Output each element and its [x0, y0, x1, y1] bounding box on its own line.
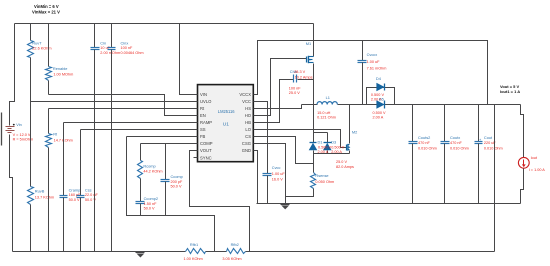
svg-text:Renable: Renable — [53, 66, 68, 71]
svg-text:D5: D5 — [379, 97, 384, 102]
svg-text:Vin: Vin — [16, 122, 22, 127]
svg-text:Rfb2: Rfb2 — [231, 242, 239, 247]
svg-text:Css: Css — [85, 187, 92, 192]
svg-text:M2: M2 — [352, 129, 357, 134]
svg-text:Ccomp: Ccomp — [171, 174, 183, 179]
svg-text:44.2 KOhm: 44.2 KOhm — [143, 169, 162, 173]
svg-text:LO: LO — [245, 127, 251, 132]
svg-text:UVLO: UVLO — [200, 99, 212, 104]
svg-text:0.121 Ohm: 0.121 Ohm — [317, 116, 336, 120]
svg-text:Cin: Cin — [100, 40, 106, 45]
svg-text:Couts2: Couts2 — [418, 135, 430, 140]
svg-text:D3: D3 — [331, 139, 336, 144]
svg-text:50.0 V: 50.0 V — [144, 207, 155, 211]
svg-text:Rfb1: Rfb1 — [190, 242, 198, 247]
svg-text:Rsense: Rsense — [315, 173, 328, 178]
svg-text:VIN: VIN — [200, 92, 207, 97]
svg-text:RuvT: RuvT — [32, 41, 42, 46]
svg-text:0.010 Ohm: 0.010 Ohm — [418, 147, 437, 151]
svg-text:0.500 V: 0.500 V — [318, 145, 332, 149]
svg-text:50.0 V: 50.0 V — [171, 185, 182, 189]
svg-text:M1: M1 — [306, 41, 311, 46]
svg-text:50.0 V: 50.0 V — [69, 198, 80, 202]
svg-text:1.50 nF: 1.50 nF — [144, 202, 158, 206]
svg-text:2.00 A: 2.00 A — [373, 116, 384, 120]
svg-text:HB: HB — [245, 120, 251, 125]
svg-text:470 nF: 470 nF — [450, 141, 463, 145]
svg-text:SYNC: SYNC — [200, 155, 212, 160]
svg-text:Iout1 = 1 A: Iout1 = 1 A — [500, 89, 520, 94]
svg-text:13.7 KOhm: 13.7 KOhm — [35, 195, 54, 199]
svg-text:0.050 Ohm: 0.050 Ohm — [315, 180, 334, 184]
svg-text:Cvccx: Cvccx — [367, 52, 378, 57]
svg-text:1.00 uF: 1.00 uF — [367, 60, 381, 64]
svg-text:22.0 nF: 22.0 nF — [85, 193, 99, 197]
svg-text:28.3 V: 28.3 V — [294, 70, 305, 74]
svg-text:16.0 V: 16.0 V — [272, 177, 283, 181]
svg-text:HO: HO — [245, 113, 252, 118]
svg-text:10.2 Amps: 10.2 Amps — [295, 76, 313, 80]
svg-text:Iout: Iout — [531, 156, 538, 160]
svg-text:CS: CS — [245, 134, 251, 139]
svg-text:1.00 KOhm: 1.00 KOhm — [184, 257, 203, 261]
svg-text:1.00 MOhm: 1.00 MOhm — [53, 72, 73, 76]
svg-text:Cinx: Cinx — [121, 40, 129, 45]
svg-text:200 pF: 200 pF — [171, 180, 184, 184]
svg-text:7.61 mOhm: 7.61 mOhm — [367, 66, 387, 70]
svg-text:COMP: COMP — [200, 141, 213, 146]
svg-text:SS: SS — [200, 127, 206, 132]
svg-text:0.500 V: 0.500 V — [373, 111, 387, 115]
svg-text:RAMP: RAMP — [200, 120, 212, 125]
svg-text:VOUT: VOUT — [200, 148, 212, 153]
svg-text:U1: U1 — [223, 122, 229, 128]
svg-text:CSG: CSG — [242, 141, 251, 146]
svg-text:LM25116: LM25116 — [218, 109, 235, 114]
svg-text:0.010 Ohm: 0.010 Ohm — [484, 147, 503, 151]
svg-text:25.0 V: 25.0 V — [289, 91, 300, 95]
svg-text:0.500 V: 0.500 V — [331, 145, 345, 149]
svg-text:100 nF: 100 nF — [121, 46, 134, 50]
svg-text:GND: GND — [242, 148, 251, 153]
svg-text:100 nF: 100 nF — [289, 87, 302, 91]
svg-text:VCC: VCC — [242, 99, 251, 104]
svg-text:1.00 uF: 1.00 uF — [272, 172, 286, 176]
svg-text:HS: HS — [245, 106, 251, 111]
svg-text:0.00464 Ohm: 0.00464 Ohm — [121, 51, 144, 55]
svg-text:D1: D1 — [318, 139, 323, 144]
svg-text:EN: EN — [200, 113, 206, 118]
svg-text:VinMax = 21 V: VinMax = 21 V — [32, 10, 60, 15]
svg-text:Cout: Cout — [484, 135, 493, 140]
svg-text:Cramp: Cramp — [69, 187, 81, 192]
svg-text:FB: FB — [200, 134, 206, 139]
svg-text:Cvcc: Cvcc — [272, 165, 281, 170]
svg-text:0.010 Ohm: 0.010 Ohm — [450, 147, 469, 151]
svg-text:15.0 uH: 15.0 uH — [317, 111, 331, 115]
svg-text:25.0 V: 25.0 V — [336, 160, 347, 164]
svg-text:82.0 Amps: 82.0 Amps — [336, 165, 354, 169]
svg-text:RuvB: RuvB — [35, 189, 45, 194]
svg-text:3.05 KOhm: 3.05 KOhm — [222, 257, 241, 261]
svg-text:VinMin = 6 V: VinMin = 6 V — [34, 4, 59, 9]
svg-text:D4: D4 — [376, 76, 382, 81]
svg-text:I = 1.00 A: I = 1.00 A — [529, 168, 546, 172]
svg-text:Rcomp: Rcomp — [143, 163, 155, 168]
svg-text:Ccomp2: Ccomp2 — [144, 196, 159, 201]
svg-text:L1: L1 — [326, 95, 330, 100]
svg-text:470 nF: 470 nF — [418, 141, 431, 145]
svg-text:Coutx: Coutx — [450, 135, 460, 140]
svg-text:VCCX: VCCX — [239, 92, 251, 97]
svg-text:2.00 mOhm: 2.00 mOhm — [100, 51, 120, 55]
